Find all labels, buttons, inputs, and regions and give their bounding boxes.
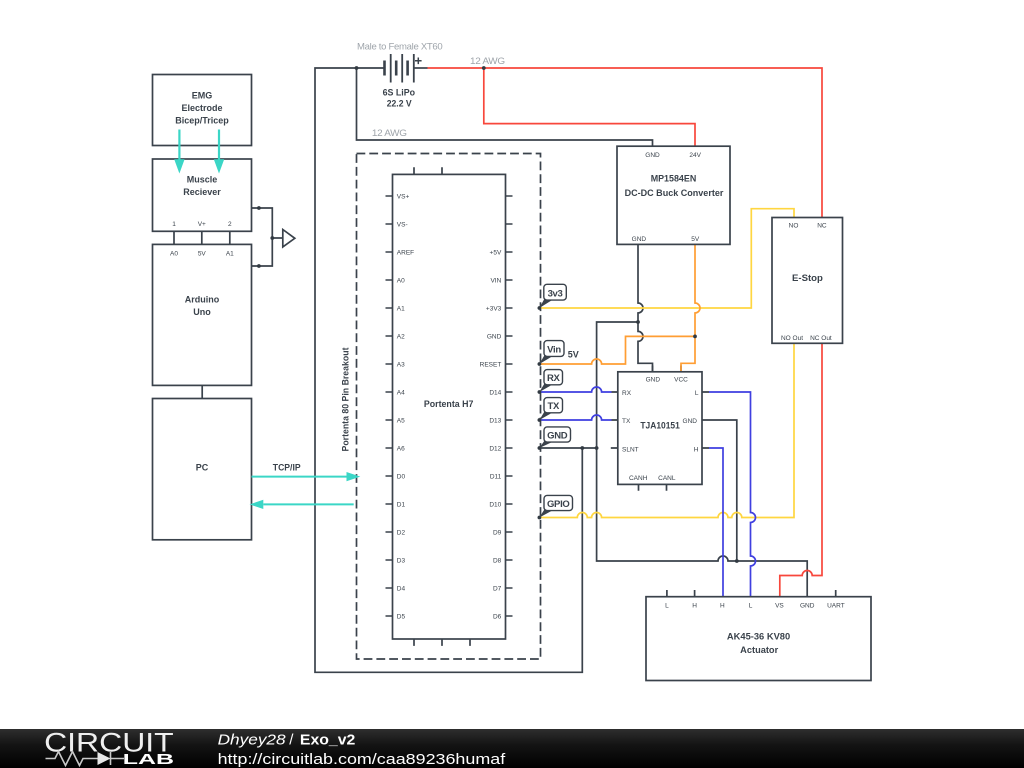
svg-text:Male to Female XT60: Male to Female XT60 — [357, 41, 442, 52]
svg-text:NO Out: NO Out — [781, 335, 803, 342]
svg-text:TJA10151: TJA10151 — [640, 420, 679, 430]
svg-text:D0: D0 — [397, 473, 406, 480]
svg-text:GND: GND — [632, 236, 647, 243]
svg-text:VS: VS — [775, 602, 784, 609]
svg-text:AK45-36 KV80: AK45-36 KV80 — [727, 632, 790, 642]
svg-text:RX: RX — [622, 390, 632, 397]
svg-text:SLNT: SLNT — [622, 446, 639, 453]
svg-text:+5V: +5V — [490, 249, 502, 256]
svg-text:GND: GND — [645, 152, 660, 159]
svg-text:5V: 5V — [691, 236, 700, 243]
svg-text:MP1584EN: MP1584EN — [651, 174, 697, 184]
svg-text:GND: GND — [646, 376, 661, 383]
svg-text:22.2 V: 22.2 V — [387, 99, 412, 109]
svg-text:EMG: EMG — [192, 90, 213, 100]
svg-text:L: L — [695, 390, 699, 397]
svg-text:A1: A1 — [226, 251, 234, 258]
svg-text:L: L — [749, 602, 753, 609]
svg-text:Actuator: Actuator — [740, 645, 778, 655]
svg-text:A2: A2 — [397, 333, 405, 340]
svg-text:A6: A6 — [397, 445, 405, 452]
svg-text:RESET: RESET — [480, 361, 502, 368]
svg-text:D4: D4 — [397, 585, 406, 592]
svg-text:http://circuitlab.com/caa89236: http://circuitlab.com/caa89236humaf — [218, 751, 507, 768]
svg-text:24V: 24V — [689, 152, 701, 159]
svg-text:Dhyey28: Dhyey28 — [218, 731, 287, 748]
svg-text:2: 2 — [228, 221, 232, 228]
svg-text:Electrode: Electrode — [181, 103, 222, 113]
svg-text:H: H — [720, 602, 725, 609]
svg-text:H: H — [692, 602, 697, 609]
svg-text:Arduino: Arduino — [185, 295, 220, 305]
svg-text:D10: D10 — [489, 501, 501, 508]
svg-text:D11: D11 — [490, 473, 502, 480]
svg-text:Portenta H7: Portenta H7 — [424, 399, 474, 409]
svg-text:RX: RX — [547, 373, 561, 384]
svg-text:D14: D14 — [489, 389, 501, 396]
svg-text:D12: D12 — [489, 445, 501, 452]
svg-text:AREF: AREF — [397, 249, 414, 256]
svg-text:LAB: LAB — [123, 751, 174, 768]
svg-text:TX: TX — [547, 401, 560, 412]
svg-text:5V: 5V — [198, 251, 207, 258]
svg-text:D2: D2 — [397, 529, 406, 536]
svg-text:12 AWG: 12 AWG — [372, 128, 407, 139]
svg-text:GND: GND — [487, 333, 502, 340]
svg-text:D6: D6 — [493, 613, 502, 620]
svg-text:GPIO: GPIO — [547, 499, 570, 510]
svg-text:GND: GND — [683, 418, 698, 425]
svg-text:A5: A5 — [397, 417, 405, 424]
svg-text:E-Stop: E-Stop — [792, 273, 823, 283]
svg-text:A0: A0 — [397, 277, 405, 284]
svg-text:Bicep/Tricep: Bicep/Tricep — [175, 116, 229, 126]
svg-text:TCP/IP: TCP/IP — [273, 463, 301, 473]
svg-text:VCC: VCC — [674, 376, 688, 383]
svg-text:1: 1 — [172, 221, 176, 228]
svg-text:H: H — [694, 446, 699, 453]
svg-text:Portenta 80 Pin Breakout: Portenta 80 Pin Breakout — [341, 347, 351, 451]
svg-text:VS+: VS+ — [397, 193, 410, 200]
svg-text:NO: NO — [789, 223, 799, 230]
svg-text:12 AWG: 12 AWG — [470, 56, 505, 67]
svg-text:5V: 5V — [568, 350, 579, 360]
svg-text:6S LiPo: 6S LiPo — [383, 87, 416, 97]
svg-text:A1: A1 — [397, 305, 405, 312]
svg-text:UART: UART — [827, 602, 845, 609]
svg-text:D7: D7 — [493, 585, 502, 592]
svg-text:A0: A0 — [170, 251, 178, 258]
svg-text:GND: GND — [800, 602, 815, 609]
svg-text:L: L — [665, 602, 669, 609]
svg-text:CANL: CANL — [658, 475, 676, 482]
svg-text:Reciever: Reciever — [183, 187, 221, 197]
svg-text:D13: D13 — [489, 417, 501, 424]
svg-text:+3V3: +3V3 — [486, 305, 502, 312]
svg-text:D1: D1 — [397, 501, 406, 508]
svg-text:NC Out: NC Out — [810, 335, 832, 342]
svg-text:D3: D3 — [397, 557, 406, 564]
svg-text:A3: A3 — [397, 361, 405, 368]
svg-text:PC: PC — [196, 462, 209, 472]
svg-text:D5: D5 — [397, 613, 406, 620]
svg-text:3v3: 3v3 — [548, 288, 563, 299]
svg-text:DC-DC Buck Converter: DC-DC Buck Converter — [625, 188, 724, 198]
svg-text:D8: D8 — [493, 557, 502, 564]
svg-text:A4: A4 — [397, 389, 405, 396]
svg-text:TX: TX — [622, 418, 631, 425]
svg-text:VIN: VIN — [490, 277, 501, 284]
svg-text:GND: GND — [547, 430, 568, 441]
svg-text:D9: D9 — [493, 529, 502, 536]
svg-text:NC: NC — [817, 223, 827, 230]
svg-text:VS-: VS- — [397, 221, 408, 228]
svg-text:CANH: CANH — [629, 475, 648, 482]
svg-text:Exo_v2: Exo_v2 — [300, 731, 355, 748]
svg-text:Vin: Vin — [547, 345, 561, 356]
svg-text:Uno: Uno — [193, 307, 211, 317]
svg-text:Muscle: Muscle — [187, 174, 218, 184]
svg-text:V+: V+ — [198, 221, 206, 228]
